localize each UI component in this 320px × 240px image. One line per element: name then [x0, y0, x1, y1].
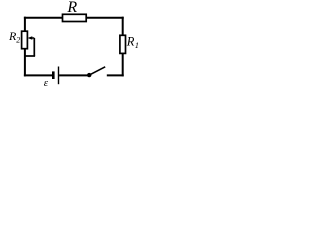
rheostat slider arrow: [28, 36, 33, 40]
resistor R: [63, 14, 87, 21]
resistor R1: [120, 35, 126, 53]
svg-text:R: R: [66, 0, 77, 16]
battery positive plate (long thin): [58, 67, 60, 85]
rheostat R2 box: [22, 31, 28, 49]
wire switch to corner: [107, 74, 124, 76]
svg-text:R: R: [126, 35, 135, 49]
switch blade: [89, 67, 105, 75]
wire top-right horizontal: [86, 17, 124, 19]
wire slider tail vertical: [33, 38, 35, 56]
wire slider tail horizontal: [25, 55, 35, 57]
wire bottom-left horizontal: [24, 74, 53, 76]
wire top-left horizontal: [24, 17, 63, 19]
switch pivot dot: [87, 73, 91, 77]
wire right vertical lower: [122, 53, 124, 76]
wire left vertical upper: [24, 17, 26, 32]
wire battery to switch: [59, 74, 89, 76]
svg-text:ε: ε: [44, 77, 49, 89]
svg-text:2: 2: [16, 36, 20, 45]
wire right vertical upper: [122, 17, 124, 36]
svg-text:1: 1: [135, 40, 139, 50]
wire left vertical lower: [24, 49, 26, 77]
battery negative plate (short thick): [52, 71, 55, 79]
